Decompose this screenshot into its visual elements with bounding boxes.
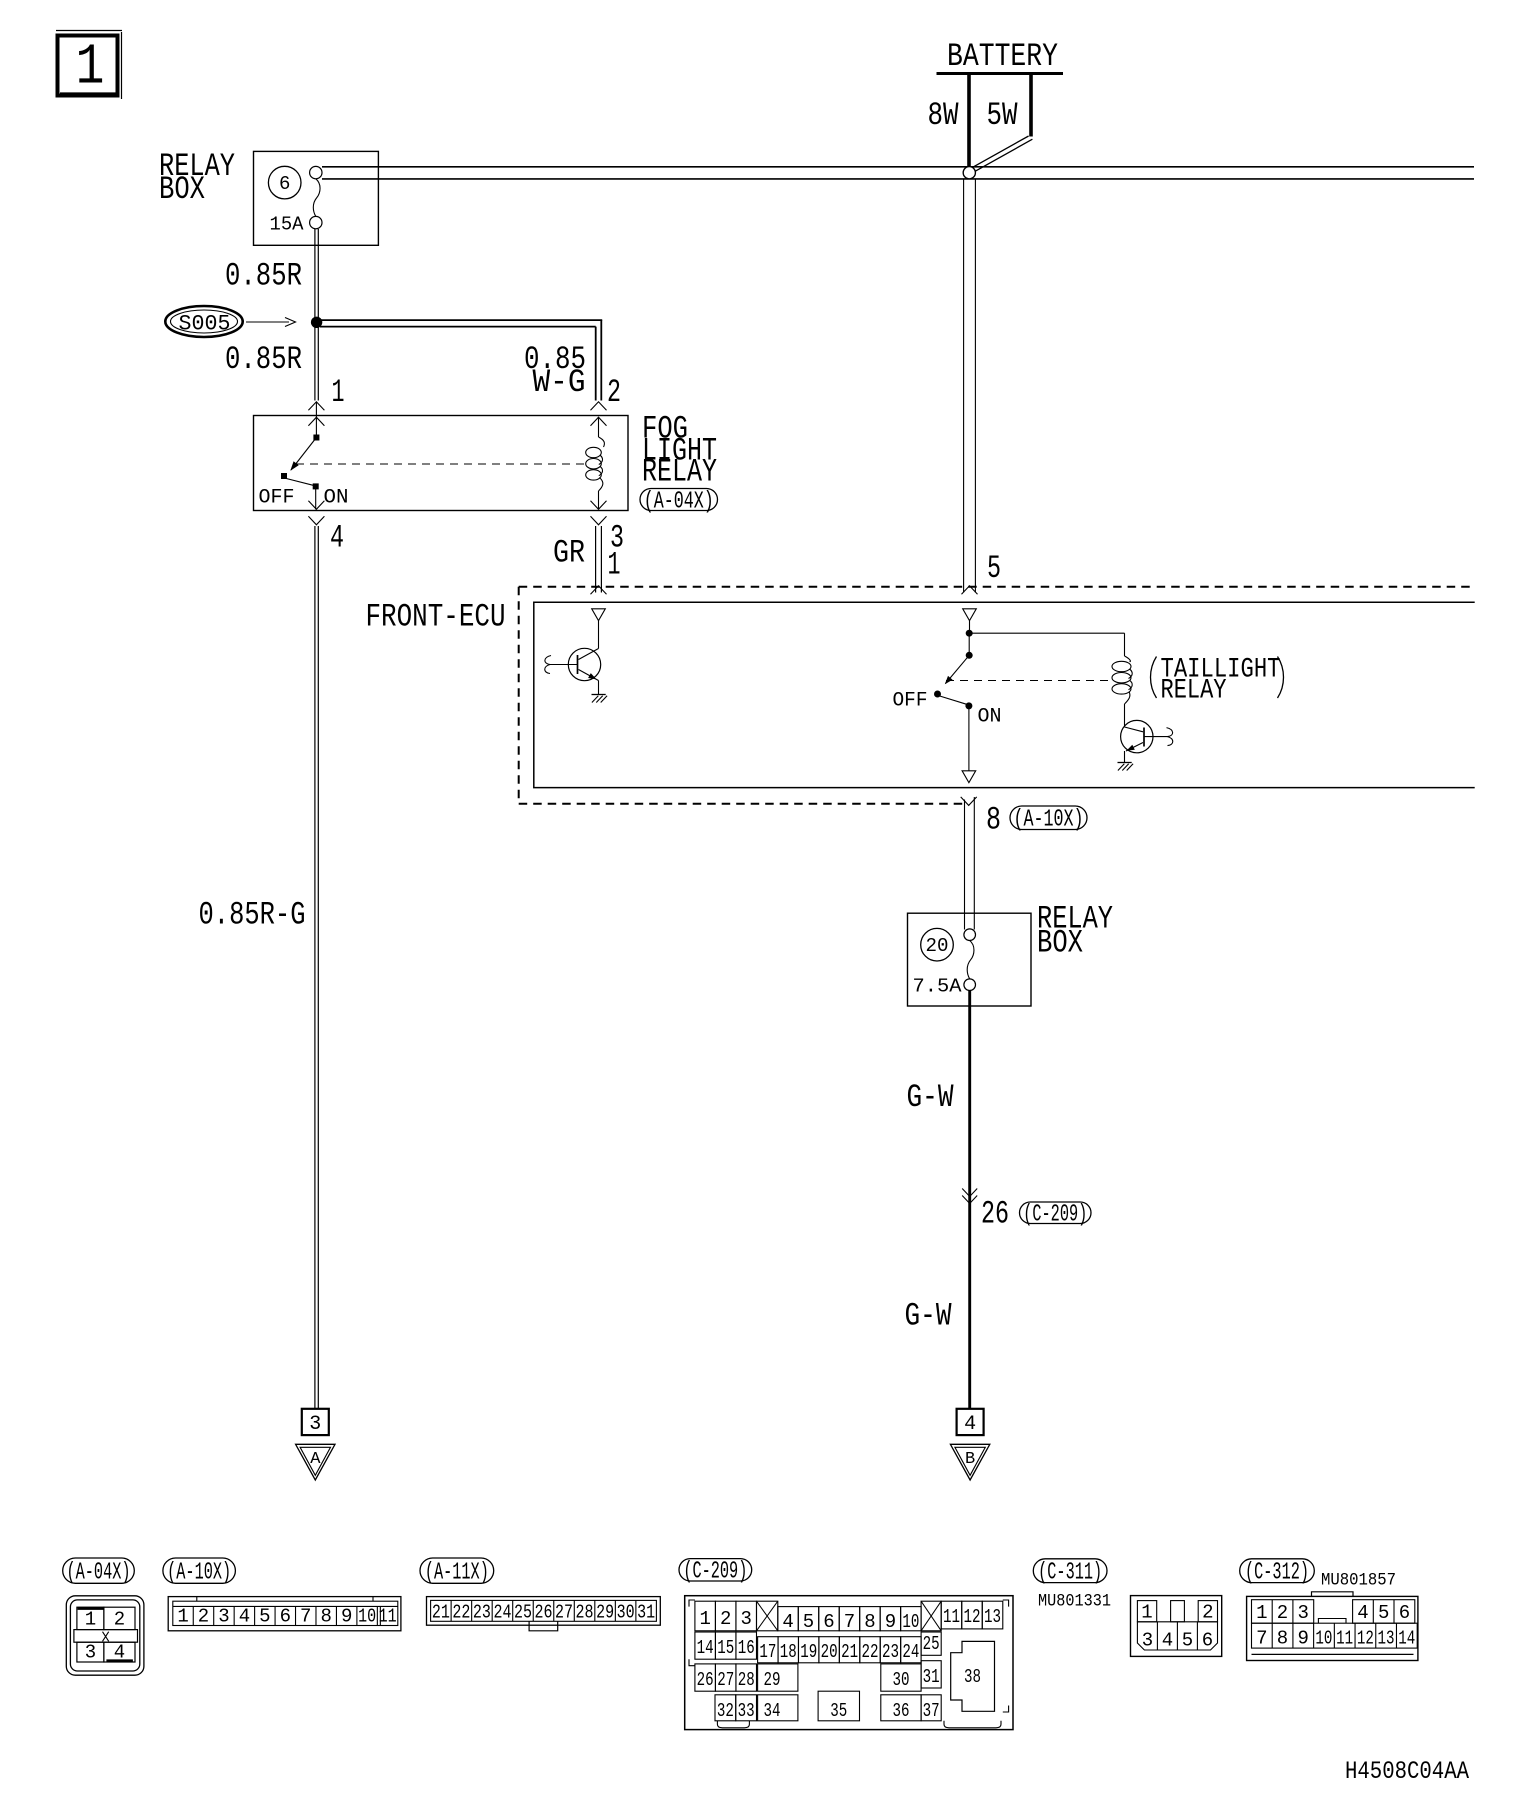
svg-text:28: 28 bbox=[738, 1669, 755, 1691]
svg-text:2: 2 bbox=[114, 1609, 125, 1631]
svg-text:3: 3 bbox=[1297, 1602, 1308, 1624]
svg-text:27: 27 bbox=[555, 1602, 573, 1624]
svg-text:26: 26 bbox=[697, 1669, 714, 1691]
svg-text:26: 26 bbox=[981, 1195, 1009, 1233]
svg-text:6: 6 bbox=[1399, 1602, 1410, 1624]
svg-text:3: 3 bbox=[1142, 1630, 1153, 1652]
svg-text:8: 8 bbox=[864, 1611, 875, 1633]
svg-text:31: 31 bbox=[923, 1666, 940, 1688]
svg-text:(C-311): (C-311) bbox=[1038, 1560, 1102, 1587]
svg-text:(A-04X): (A-04X) bbox=[644, 488, 714, 515]
svg-text:1: 1 bbox=[85, 1609, 96, 1631]
svg-text:18: 18 bbox=[780, 1641, 797, 1663]
svg-text:36: 36 bbox=[893, 1700, 910, 1722]
svg-text:24: 24 bbox=[493, 1602, 511, 1624]
svg-text:12: 12 bbox=[1357, 1628, 1374, 1650]
svg-text:21: 21 bbox=[432, 1602, 450, 1624]
svg-text:ON: ON bbox=[324, 487, 349, 510]
svg-text:3: 3 bbox=[741, 1608, 752, 1630]
svg-text:4: 4 bbox=[782, 1611, 793, 1633]
svg-text:FRONT-ECU: FRONT-ECU bbox=[366, 598, 506, 636]
svg-text:3: 3 bbox=[85, 1642, 96, 1664]
svg-text:0.85R: 0.85R bbox=[225, 340, 302, 378]
svg-text:17: 17 bbox=[759, 1641, 776, 1663]
svg-text:2: 2 bbox=[720, 1608, 731, 1630]
svg-text:2: 2 bbox=[607, 373, 621, 411]
svg-text:ON: ON bbox=[978, 706, 1002, 729]
svg-text:3: 3 bbox=[218, 1606, 229, 1628]
svg-text:10: 10 bbox=[902, 1611, 919, 1633]
svg-text:0.85R: 0.85R bbox=[225, 257, 302, 295]
svg-text:31: 31 bbox=[637, 1602, 655, 1624]
svg-text:BATTERY: BATTERY bbox=[947, 37, 1058, 75]
svg-text:38: 38 bbox=[964, 1666, 981, 1688]
svg-text:1: 1 bbox=[177, 1606, 188, 1628]
svg-text:32: 32 bbox=[717, 1700, 734, 1722]
svg-text:(A-10X): (A-10X) bbox=[1014, 807, 1084, 834]
svg-text:11: 11 bbox=[1336, 1628, 1353, 1650]
svg-text:2: 2 bbox=[1277, 1602, 1288, 1624]
svg-text:4: 4 bbox=[114, 1642, 125, 1664]
svg-text:5: 5 bbox=[1182, 1630, 1193, 1652]
svg-text:1: 1 bbox=[1141, 1602, 1152, 1624]
svg-text:(A-11X): (A-11X) bbox=[425, 1560, 489, 1587]
svg-text:OFF: OFF bbox=[893, 690, 928, 713]
svg-text:6: 6 bbox=[823, 1611, 834, 1633]
svg-text:19: 19 bbox=[800, 1641, 817, 1663]
svg-text:MU801857: MU801857 bbox=[1321, 1571, 1396, 1591]
svg-text:8: 8 bbox=[1277, 1628, 1288, 1650]
svg-text:A: A bbox=[310, 1450, 321, 1469]
svg-text:BOX: BOX bbox=[159, 170, 205, 208]
svg-text:34: 34 bbox=[764, 1700, 781, 1722]
svg-text:15: 15 bbox=[717, 1637, 734, 1659]
svg-text:7: 7 bbox=[1256, 1628, 1267, 1650]
svg-text:4: 4 bbox=[1357, 1602, 1368, 1624]
svg-text:MU801331: MU801331 bbox=[1038, 1592, 1111, 1612]
svg-text:13: 13 bbox=[1378, 1628, 1395, 1650]
svg-text:9: 9 bbox=[885, 1611, 896, 1633]
svg-text:W-G: W-G bbox=[533, 363, 586, 401]
svg-text:35: 35 bbox=[830, 1700, 847, 1722]
svg-text:11: 11 bbox=[943, 1606, 960, 1628]
svg-text:37: 37 bbox=[923, 1700, 940, 1722]
svg-text:14: 14 bbox=[1398, 1628, 1415, 1650]
svg-text:1: 1 bbox=[76, 35, 105, 100]
svg-text:1: 1 bbox=[699, 1608, 710, 1630]
svg-text:10: 10 bbox=[358, 1606, 376, 1628]
svg-text:16: 16 bbox=[738, 1637, 755, 1659]
svg-text:33: 33 bbox=[738, 1700, 755, 1722]
svg-text:9: 9 bbox=[1298, 1628, 1309, 1650]
svg-text:GR: GR bbox=[553, 534, 585, 572]
svg-text:1: 1 bbox=[608, 546, 621, 584]
svg-text:0.85R-G: 0.85R-G bbox=[199, 896, 306, 934]
svg-text:20: 20 bbox=[821, 1641, 838, 1663]
svg-text:1: 1 bbox=[1256, 1602, 1267, 1624]
svg-text:12: 12 bbox=[963, 1606, 980, 1628]
svg-text:20: 20 bbox=[926, 935, 949, 957]
svg-text:13: 13 bbox=[984, 1606, 1001, 1628]
svg-text:(A-10X): (A-10X) bbox=[167, 1560, 231, 1587]
svg-text:21: 21 bbox=[841, 1641, 858, 1663]
svg-text:OFF: OFF bbox=[259, 487, 295, 510]
svg-text:7.5A: 7.5A bbox=[913, 976, 963, 998]
svg-text:BOX: BOX bbox=[1037, 924, 1083, 962]
svg-text:29: 29 bbox=[596, 1602, 614, 1624]
svg-text:26: 26 bbox=[535, 1602, 553, 1624]
svg-text:(A-04X): (A-04X) bbox=[67, 1560, 131, 1587]
svg-text:29: 29 bbox=[764, 1669, 781, 1691]
svg-text:7: 7 bbox=[300, 1606, 311, 1628]
svg-text:10: 10 bbox=[1315, 1628, 1332, 1650]
svg-text:2: 2 bbox=[1202, 1602, 1213, 1624]
svg-text:25: 25 bbox=[923, 1633, 940, 1655]
svg-text:(C-209): (C-209) bbox=[1023, 1202, 1087, 1229]
svg-text:3: 3 bbox=[309, 1413, 321, 1436]
svg-text:5: 5 bbox=[259, 1606, 270, 1628]
svg-text:6: 6 bbox=[1202, 1630, 1213, 1652]
svg-text:2: 2 bbox=[198, 1606, 209, 1628]
svg-text:23: 23 bbox=[882, 1641, 899, 1663]
svg-text:15A: 15A bbox=[270, 214, 305, 236]
svg-text:4: 4 bbox=[330, 519, 344, 557]
svg-text:30: 30 bbox=[617, 1602, 635, 1624]
svg-text:RELAY: RELAY bbox=[642, 453, 717, 491]
svg-text:7: 7 bbox=[844, 1611, 855, 1633]
svg-text:14: 14 bbox=[697, 1637, 714, 1659]
svg-text:22: 22 bbox=[862, 1641, 879, 1663]
svg-text:(C-312): (C-312) bbox=[1245, 1560, 1309, 1587]
svg-text:B: B bbox=[965, 1450, 975, 1469]
svg-text:6: 6 bbox=[280, 1606, 291, 1628]
svg-text:23: 23 bbox=[473, 1602, 491, 1624]
svg-text:4: 4 bbox=[239, 1606, 250, 1628]
svg-text:RELAY: RELAY bbox=[1161, 674, 1227, 706]
svg-text:G-W: G-W bbox=[905, 1297, 952, 1335]
svg-text:8: 8 bbox=[321, 1606, 332, 1628]
svg-text:8W: 8W bbox=[928, 96, 959, 134]
svg-text:27: 27 bbox=[717, 1669, 734, 1691]
svg-text:4: 4 bbox=[1162, 1630, 1173, 1652]
svg-text:6: 6 bbox=[279, 173, 290, 195]
svg-text:22: 22 bbox=[452, 1602, 470, 1624]
svg-text:5: 5 bbox=[987, 549, 1001, 587]
svg-text:28: 28 bbox=[576, 1602, 594, 1624]
svg-text:25: 25 bbox=[514, 1602, 532, 1624]
svg-text:4: 4 bbox=[964, 1413, 976, 1436]
svg-text:24: 24 bbox=[902, 1641, 919, 1663]
svg-text:G-W: G-W bbox=[907, 1078, 954, 1116]
svg-text:1: 1 bbox=[332, 373, 345, 411]
svg-text:30: 30 bbox=[893, 1669, 910, 1691]
svg-text:11: 11 bbox=[379, 1606, 397, 1628]
svg-text:8: 8 bbox=[986, 801, 1001, 839]
svg-text:S005: S005 bbox=[179, 312, 231, 337]
svg-text:H4508C04AA: H4508C04AA bbox=[1345, 1758, 1470, 1787]
svg-text:5: 5 bbox=[803, 1611, 814, 1633]
svg-text:9: 9 bbox=[341, 1606, 352, 1628]
svg-text:(C-209): (C-209) bbox=[683, 1559, 747, 1586]
svg-text:5W: 5W bbox=[987, 96, 1018, 134]
svg-text:5: 5 bbox=[1378, 1602, 1389, 1624]
